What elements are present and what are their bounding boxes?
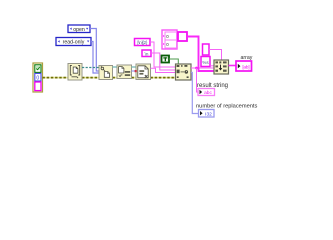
coercion dot on icon4 input (135, 70, 137, 72)
boolean constant T (162, 56, 170, 63)
function: spreadsheet string to array (214, 60, 229, 74)
svg-text:abc: abc (204, 90, 212, 96)
string wire icon4 to search node (151, 68, 177, 72)
error wire icon2 to icon3 (113, 77, 118, 79)
function: search and replace string (176, 64, 192, 80)
svg-text:[ab]: [ab] (242, 65, 250, 71)
format string constant "%s" (201, 57, 210, 67)
2D array wire to spreadsheet-string-to-array node (187, 37, 214, 72)
indicator: result string (198, 89, 215, 97)
svg-text:array: array (241, 55, 253, 61)
svg-text:%s: %s (202, 60, 209, 65)
svg-text:read-only: read-only (63, 40, 85, 46)
VI icon: read file (117, 65, 132, 79)
error cluster constant (33, 63, 43, 92)
svg-text:0: 0 (36, 76, 39, 82)
svg-text:[\n]{2}: [\n]{2} (137, 40, 148, 45)
wire from "open" to file-open node (90, 29, 100, 72)
empty string constant (delimiter) (203, 44, 210, 55)
wire from "read-only" to file-open node (91, 42, 100, 74)
format wire (210, 65, 214, 67)
numeric wire icon3 to icon4 (132, 70, 137, 72)
VI icon: read text file (136, 64, 151, 80)
svg-text:open: open (73, 27, 85, 33)
indicator: number of replacements (I32) (199, 110, 215, 118)
refnum wire icon2 to icon3 (113, 66, 118, 68)
enum constant "open" (68, 25, 90, 33)
2D array constant (162, 30, 187, 49)
string constant "[\n]{2}" (135, 39, 151, 46)
number of replacements wire (191, 73, 199, 114)
wire regex2 to search node (151, 53, 176, 70)
string constant "\n" (142, 50, 151, 57)
junction dot (195, 67, 198, 70)
wire regex1 to search node (150, 42, 176, 67)
VI icon: file dialog (68, 64, 82, 81)
enum constant "read-only" (56, 38, 91, 46)
svg-text:\n: \n (145, 51, 149, 56)
error wire icon3 to icon4 (132, 77, 137, 79)
result string wire with junction (191, 67, 214, 69)
boolean wire T to search node (169, 59, 178, 64)
refnum wire icon3 to icon4 (132, 66, 137, 68)
svg-text:I32: I32 (205, 112, 212, 118)
indicator: array (string array) (236, 61, 252, 71)
array output wire (229, 65, 237, 67)
VI icon: open/create/replace file (99, 66, 113, 80)
svg-text:number of replacements: number of replacements (196, 104, 257, 110)
path wire (dashed teal) icon1 to icon2 (82, 67, 99, 69)
error wire icon4 to search node (151, 77, 177, 79)
branch wire to result string indicator (197, 68, 199, 92)
error wire (dashed) cluster to icon1 (43, 77, 69, 79)
delimiter wire (209, 50, 222, 61)
error wire icon1 to icon2 (82, 77, 99, 79)
